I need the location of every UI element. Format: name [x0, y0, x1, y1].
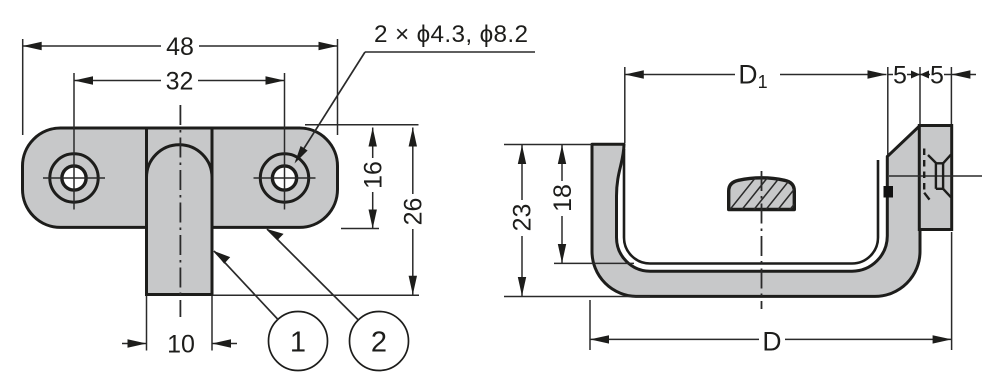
svg-text:23: 23 — [509, 204, 537, 232]
svg-text:5: 5 — [930, 62, 944, 90]
balloon 2 — [350, 312, 409, 371]
leader balloon 1 — [214, 251, 278, 320]
hole H2 right: outer circle — [260, 154, 308, 202]
svg-text:10: 10 — [167, 331, 195, 359]
center line of insert (dash-dot) — [761, 171, 763, 309]
hole H1 left: outer circle — [50, 154, 98, 202]
dimension 10 — [122, 296, 237, 351]
svg-text:16: 16 — [360, 161, 388, 189]
extension line plate bottom right — [341, 228, 379, 230]
dimension 48 — [23, 39, 338, 135]
tab right edge — [211, 128, 214, 295]
hole H1 crosshair — [43, 177, 105, 179]
extension line plate top right — [305, 124, 419, 126]
black catch square on leg — [884, 186, 894, 198]
hole H2 crosshair — [254, 177, 316, 179]
leader to hole H2 — [296, 52, 365, 161]
dimension 26 — [412, 128, 414, 295]
dimension 18 — [554, 145, 634, 263]
tab top arc (bend of leg) — [147, 145, 213, 178]
tab bottom edge — [145, 293, 214, 296]
svg-text:D1: D1 — [738, 60, 767, 93]
center line (dash-dot) of tab — [179, 105, 181, 317]
svg-text:2 × ϕ4.3, ϕ8.2: 2 × ϕ4.3, ϕ8.2 — [374, 21, 528, 48]
dimension 32 — [74, 80, 285, 82]
plate (stadium shaped mounting plate) — [23, 128, 338, 227]
svg-text:18: 18 — [549, 184, 577, 212]
hidden screw hole lines — [924, 149, 951, 200]
dimension 23 — [504, 145, 650, 297]
dimension D1 and 5,5 — [625, 67, 976, 155]
svg-text:48: 48 — [166, 33, 194, 61]
screw center line — [889, 175, 982, 177]
plate top edge across tab — [140, 127, 218, 130]
svg-text:26: 26 — [399, 198, 427, 226]
svg-text:D: D — [762, 327, 781, 357]
dimension D — [590, 232, 952, 350]
hole H2 right: inner circle — [272, 166, 296, 190]
svg-text:1: 1 — [290, 327, 306, 359]
tab (center leg seen through plate) fill — [147, 130, 213, 295]
tab left edge — [145, 128, 148, 295]
channel body (gray U band) — [592, 126, 920, 297]
leader balloon 2 — [267, 229, 358, 320]
extension line tab bottom right — [213, 294, 419, 296]
dimension 16 — [372, 128, 374, 229]
side plate — [919, 126, 951, 230]
svg-text:2: 2 — [371, 327, 387, 359]
balloon 1 — [269, 312, 328, 371]
far inner edge line of channel — [624, 149, 878, 264]
svg-text:32: 32 — [166, 68, 194, 96]
svg-text:5: 5 — [893, 62, 907, 90]
hole H1 left: inner circle — [62, 166, 86, 190]
